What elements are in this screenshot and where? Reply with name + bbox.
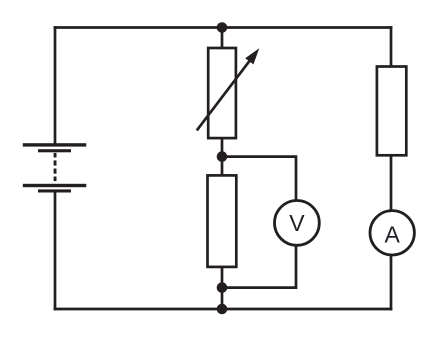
node A (top junction)	[217, 22, 228, 33]
wire middle (node B to resistor)	[221, 157, 224, 177]
wire middle (variable resistor to node B)	[221, 137, 224, 158]
node D (bottom rail junction)	[217, 304, 228, 315]
wire voltmeter branch lower (up from rail, left to node C)	[222, 246, 296, 288]
battery B1 top cell long plate (+)	[23, 143, 87, 146]
battery dashed link (further cells)	[54, 153, 57, 181]
wire top rail	[54, 26, 393, 29]
battery B1 bottom cell long plate (+)	[23, 184, 87, 187]
node B (between variable resistor and resistor)	[217, 151, 228, 162]
svg-text:A: A	[385, 222, 401, 248]
node C (below resistor, voltmeter return)	[217, 282, 228, 293]
wire right vertical (ammeter to bottom rail)	[390, 254, 393, 310]
variable resistor body	[208, 48, 236, 138]
wire right vertical (top rail to resistor)	[390, 26, 393, 67]
wire middle (top node to variable resistor)	[221, 28, 224, 50]
wire right vertical (resistor to ammeter)	[390, 154, 393, 212]
wire voltmeter branch upper (node B right and down)	[222, 157, 296, 200]
variable resistor arrow shaft	[197, 60, 250, 130]
wire left vertical (top rail to battery)	[54, 26, 57, 144]
battery B1 bottom cell short plate (-)	[38, 189, 71, 192]
variable resistor arrowhead	[245, 48, 259, 64]
svg-text:V: V	[289, 210, 305, 236]
voltmeter V body	[275, 201, 320, 246]
wire middle (resistor to bottom rail)	[221, 266, 224, 311]
resistor R (lower middle)	[208, 175, 237, 267]
wire left vertical (battery to bottom rail)	[54, 191, 57, 311]
battery B1 top cell short plate (-)	[38, 149, 71, 152]
wire bottom rail	[54, 308, 393, 311]
resistor (right branch)	[377, 67, 406, 156]
ammeter A body	[370, 211, 414, 255]
